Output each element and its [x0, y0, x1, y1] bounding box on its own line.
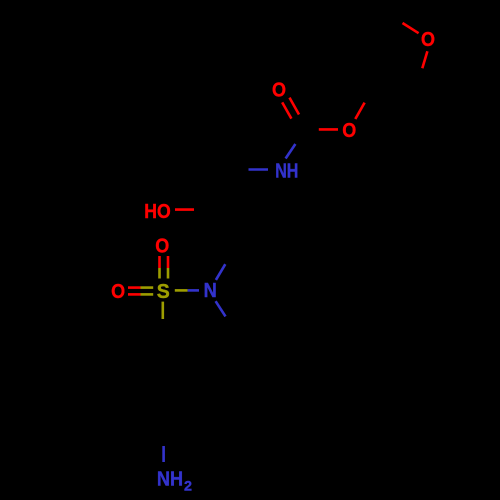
wire: S=O horiz line b yellow half [141, 293, 154, 296]
wire: NH-C stereocenter bond half [249, 168, 269, 171]
wire: ester O left bond half [319, 128, 338, 131]
svg-text:O: O [272, 79, 286, 101]
wire: N-CH2 isobutyl bond half [216, 301, 226, 316]
wire: thf O-C4 bond half [422, 51, 427, 68]
wire: C=O double line a [282, 102, 291, 118]
svg-text:NH: NH [275, 161, 298, 183]
wire: S=O vert line a red half [158, 256, 161, 268]
wire: N-CH2 upper bond half [216, 264, 225, 280]
wire: NH2-C aryl bond half [162, 446, 165, 462]
wire: S-N bond yellow half [175, 289, 188, 292]
wire: S=O vert line b yellow half [167, 268, 170, 279]
svg-text:NH: NH [157, 469, 183, 491]
wire: thf C2-O bond half [403, 23, 419, 33]
svg-text:O: O [421, 29, 435, 51]
svg-text:HO: HO [144, 201, 171, 223]
wire: S-N bond blue half [188, 289, 199, 292]
svg-text:N: N [204, 280, 217, 302]
wire: NH-C carbonyl bond half [286, 144, 296, 159]
svg-text:O: O [155, 235, 169, 257]
wire: HO-C bond half [175, 208, 194, 211]
wire: S=O vert line a yellow half [158, 268, 161, 279]
svg-text:O: O [342, 120, 356, 142]
wire: ester O upper bond half [355, 103, 364, 119]
wire: S=O horiz line a yellow half [141, 286, 154, 289]
svg-text:S: S [157, 281, 170, 303]
svg-text:O: O [111, 281, 125, 303]
wire: C=O double line b [290, 98, 300, 115]
svg-text:2: 2 [184, 478, 192, 494]
wire: S=O horiz line b red half [128, 293, 141, 296]
wire: S=O horiz line a red half [128, 286, 141, 289]
wire: S=O vert line b red half [167, 256, 170, 268]
wire: S-C aryl bond half [162, 302, 165, 319]
